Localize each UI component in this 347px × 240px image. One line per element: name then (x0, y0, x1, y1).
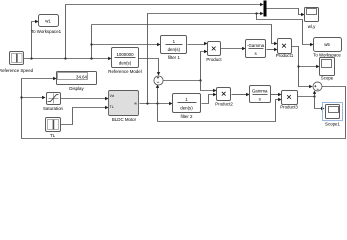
svg-text:wl,y: wl,y (308, 24, 316, 29)
mux: Mux for scope signals (264, 1, 267, 17)
wire: uc branch top line A to Mux input 1 (66, 3, 264, 59)
block: BLDC Motor subsystem (109, 91, 139, 123)
svg-text:w5: w5 (324, 42, 330, 47)
wire: error Sum output to Product/Product2 riser (163, 80, 201, 82)
svg-text:Vd: Vd (110, 94, 114, 98)
block: Scope (320, 58, 335, 81)
wire: w up into error Sum bottom input and down to bottom w line (156, 85, 159, 122)
wire: uc line C to Product1 top input (92, 25, 278, 46)
wire: Mux output to scope wl,y (267, 9, 305, 17)
block: filter 1 transfer function (161, 36, 187, 61)
block: Product3 (280, 91, 298, 110)
svg-text:-Gamma: -Gamma (247, 43, 265, 48)
block: Product2 (215, 88, 233, 107)
block: w5 To Workspace (313, 38, 341, 58)
wire: -Gamma/s output to Product1 input 2 (267, 48, 278, 51)
wire: u branch to Saturation (22, 96, 46, 99)
svg-text:1000000: 1000000 (116, 52, 134, 57)
wire: control u from Sum2 around right and bottom to left riser (20, 77, 345, 139)
svg-text:filter 1: filter 1 (168, 55, 181, 60)
wire: filter 2 output to Product2 input 2 (202, 93, 217, 104)
wire: Product3 output to Sum2 bottom input and Scope1 (298, 91, 325, 111)
wire: Reference Model output to error Sum top input (139, 59, 161, 76)
svg-text:Saturation: Saturation (43, 106, 64, 111)
svg-text:den(s): den(s) (168, 47, 181, 52)
block: Gamma/s adaptation gain integrator (250, 86, 271, 103)
wire: Product output to -Gamma/s integrator (221, 47, 246, 50)
wire: Product2 output to Gamma/s integrator (232, 93, 250, 96)
block: Saturation (43, 93, 64, 112)
svg-text:den(s): den(s) (180, 106, 193, 111)
wire: w line B up to Mux input 2 (148, 12, 264, 104)
block: -Gamma/s adaptation gain integrator (246, 40, 266, 58)
svg-text:w1: w1 (45, 19, 51, 24)
svg-text:TL: TL (50, 133, 56, 138)
svg-text:w: w (134, 102, 137, 106)
svg-text:den(s): den(s) (119, 61, 132, 66)
wire: uc branch up to To Workspace1 (32, 20, 39, 59)
svg-text:Display: Display (69, 86, 84, 91)
wire: BLDC Motor speed w to filter 2 (140, 102, 173, 105)
svg-text:Product3: Product3 (280, 105, 298, 110)
wire: Product1 output down to Scope and Sum1 left input (292, 47, 320, 89)
svg-text:To Workspace: To Workspace (313, 53, 341, 58)
wire: uc vertical riser at x=91 with branch to filter 1 (90, 25, 160, 59)
block: Product1 (276, 39, 294, 59)
svg-text:To Workspace1: To Workspace1 (31, 29, 62, 34)
wire: uc from Reference Speed to Reference Model (24, 57, 112, 60)
block: Scope1 (selected) (323, 103, 343, 127)
block: Display 34.64 (57, 72, 97, 92)
block: Product (206, 42, 222, 63)
sum: Sum2 control law (u1 - u2) (313, 82, 322, 91)
svg-text:BLDC Motor: BLDC Motor (112, 117, 137, 122)
svg-text:Scope: Scope (321, 76, 334, 81)
wire: w bottom line to Product3 input 2 (158, 98, 282, 122)
wire: error e down to Product2 input 1 (201, 81, 217, 93)
sum: error Sum (ym - y) (154, 76, 163, 85)
svg-text:Scope1: Scope1 (325, 122, 340, 127)
svg-text:Gamma: Gamma (252, 89, 268, 94)
block: Reference Speed source (0, 52, 34, 74)
svg-text:34.64: 34.64 (76, 75, 88, 80)
block: TL torque source (46, 118, 61, 139)
block: filter 2 transfer function (173, 94, 201, 120)
wire: Gamma/s output to Product3 input 1 (271, 93, 282, 96)
svg-text:Reference Model: Reference Model (108, 69, 141, 74)
wire: filter 1 output to Product input 1 (188, 42, 208, 45)
wire: error e from Sum up to Product input 2 (199, 50, 207, 82)
block: scope wl,y (305, 8, 319, 30)
block: Reference Model transfer function (108, 48, 141, 75)
wire: TL output up to BLDC Motor TL input (61, 106, 109, 125)
block: To Workspace1 (w1) (31, 15, 62, 35)
svg-text:Reference Speed: Reference Speed (0, 68, 34, 73)
svg-text:Product2: Product2 (215, 102, 233, 107)
wire: w branch down to w5 To Workspace (257, 14, 314, 47)
wire: Saturation output to BLDC Motor Vd input (61, 97, 109, 100)
svg-text:Product: Product (206, 57, 222, 62)
svg-text:Product1: Product1 (276, 53, 294, 58)
svg-text:filter 2: filter 2 (181, 114, 194, 119)
svg-text:TL: TL (110, 105, 114, 109)
